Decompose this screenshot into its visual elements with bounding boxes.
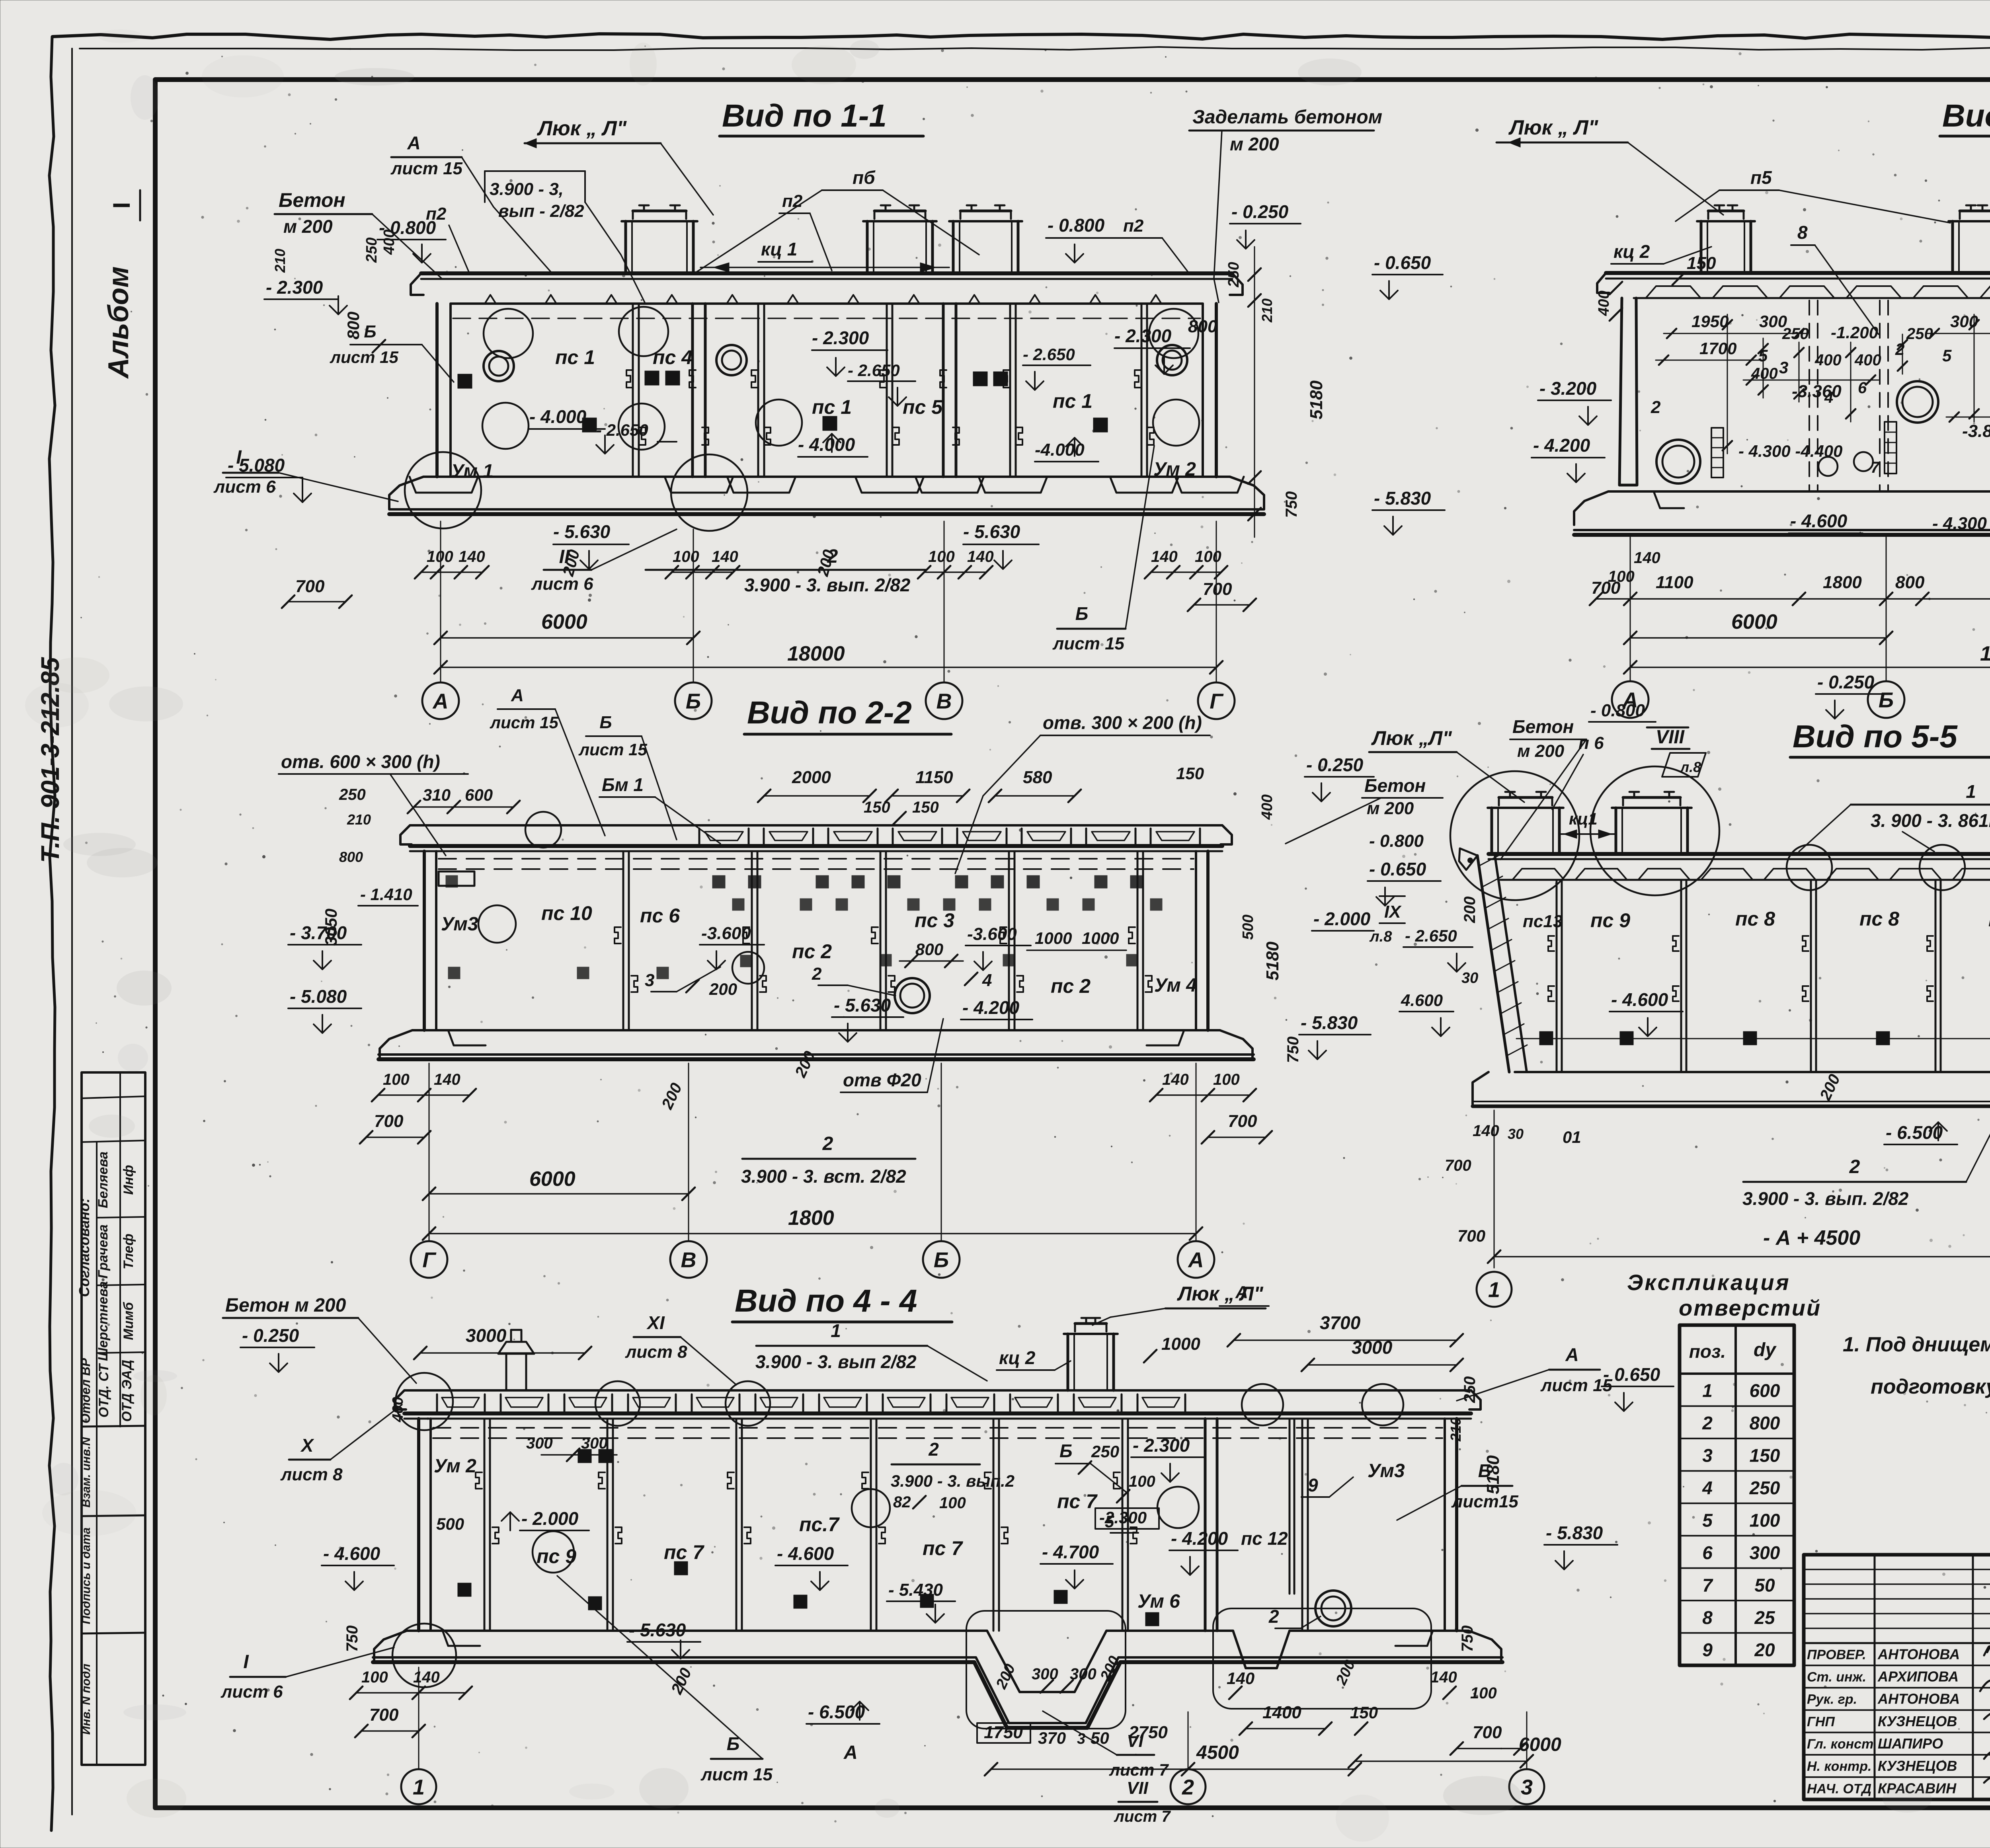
view 3-3 left wall — [1619, 298, 1637, 485]
svg-text:- 2.650: - 2.650 — [596, 421, 648, 439]
svg-text:ПРОВЕР.: ПРОВЕР. — [1807, 1647, 1866, 1662]
view 5-5 floor profile top — [1515, 1072, 1990, 1122]
svg-text:- 5.830: - 5.830 — [1301, 1012, 1358, 1033]
svg-text:отверстий: отверстий — [1679, 1295, 1821, 1320]
title block name row line 5 — [1804, 1754, 1990, 1756]
svg-text:м 200: м 200 — [283, 216, 333, 237]
svg-text:Бетон: Бетон — [279, 189, 345, 211]
view 4-4 grid bubble 1 — [401, 1769, 436, 1804]
svg-text:Б: Б — [1075, 603, 1089, 624]
svg-text:1100: 1100 — [1656, 573, 1693, 592]
svg-text:лист 15: лист 15 — [330, 348, 399, 366]
view 4-4 floor right foot — [1469, 1631, 1501, 1661]
svg-text:I: I — [243, 1651, 249, 1673]
title block vertical 2 — [1972, 1555, 1974, 1799]
svg-text:лист 15: лист 15 — [700, 1765, 773, 1784]
svg-text:100: 100 — [427, 548, 453, 565]
svg-text:- 0.650: - 0.650 — [1603, 1364, 1660, 1385]
svg-text:-4.000: -4.000 — [1035, 440, 1085, 460]
svg-text:2: 2 — [928, 1439, 939, 1460]
svg-text:Б: Б — [686, 689, 701, 713]
svg-text:лист 6: лист 6 — [220, 1682, 283, 1702]
view 4-4 callout circle roof 4 — [1362, 1384, 1403, 1425]
svg-text:150: 150 — [1350, 1703, 1378, 1722]
svg-text:п5: п5 — [1750, 167, 1772, 188]
svg-text:I: I — [236, 447, 242, 468]
svg-text:1750: 1750 — [984, 1723, 1023, 1742]
view 2-2 floor bottom slab — [378, 1053, 1254, 1056]
view 5-5 floor profile bottom — [1473, 1106, 1990, 1141]
svg-text:- 0.250: - 0.250 — [1306, 754, 1364, 775]
view 1-1 pipe opening 2 — [716, 345, 747, 375]
svg-text:А: А — [1235, 1283, 1248, 1302]
svg-text:6000: 6000 — [529, 1168, 576, 1191]
svg-text:пс 2: пс 2 — [792, 940, 832, 963]
svg-text:250: 250 — [339, 786, 366, 803]
view 2-2 roof band — [410, 824, 1222, 827]
view 2-2 roof right cap — [1221, 825, 1232, 844]
svg-text:3: 3 — [1702, 1445, 1713, 1466]
view 3-3 floor bottom slab — [1574, 529, 1990, 531]
svg-text:6000: 6000 — [541, 610, 587, 634]
view 1-1 callout circle wall mid 4 — [1153, 400, 1199, 446]
svg-text:3700: 3700 — [1320, 1312, 1361, 1333]
svg-text:Н. контр.: Н. контр. — [1807, 1759, 1871, 1774]
view 4-4 roof slab boxes — [437, 1394, 485, 1413]
svg-text:- 0.250: - 0.250 — [1817, 672, 1875, 692]
view 1-1 callout circle base II — [671, 454, 747, 531]
svg-text:5180: 5180 — [1307, 380, 1326, 419]
view 2-2 callout circle um3 — [478, 905, 516, 943]
svg-text:Рук. гр.: Рук. гр. — [1807, 1692, 1857, 1707]
view 3-3 roof hatch box 1 — [1700, 221, 1703, 273]
view 1-1 arrow luk — [525, 138, 537, 148]
svg-text:- 4.600: - 4.600 — [777, 1543, 834, 1564]
svg-text:580: 580 — [1023, 768, 1052, 787]
view 1-1 roof right end cap — [1230, 273, 1243, 295]
svg-text:100: 100 — [928, 548, 955, 565]
svg-text:- 3.700: - 3.700 — [290, 922, 347, 943]
svg-text:3.900 - 3. вст. 2/82: 3.900 - 3. вст. 2/82 — [741, 1166, 906, 1187]
svg-text:лист 6: лист 6 — [213, 477, 276, 497]
view 1-1 floor top line — [423, 476, 1230, 478]
svg-text:- 1.410: - 1.410 — [360, 885, 412, 904]
view 3-3 partitions dashed — [1809, 300, 1810, 490]
view 4-4 ceiling dashed — [433, 1427, 1442, 1429]
svg-text:- 5.080: - 5.080 — [290, 986, 347, 1007]
svg-text:150: 150 — [1687, 253, 1716, 273]
svg-text:100: 100 — [361, 1669, 388, 1686]
svg-text:- 0.250: - 0.250 — [1231, 201, 1289, 222]
svg-text:Вид по 1-1: Вид по 1-1 — [722, 98, 887, 133]
svg-text:9: 9 — [1702, 1639, 1713, 1660]
svg-text:- 2.000: - 2.000 — [521, 1508, 579, 1529]
view 3-3 title underline — [1940, 135, 1990, 138]
svg-text:Люк „ Л": Люк „ Л" — [537, 117, 627, 140]
svg-text:пс 9: пс 9 — [537, 1545, 576, 1567]
view 3-3 dim 6000 — [1630, 637, 1886, 639]
view 4-4 right wall — [1455, 1419, 1458, 1631]
svg-text:700: 700 — [1203, 579, 1232, 599]
view 3-3 axis line A — [1630, 537, 1631, 681]
view 3-3 axis line B — [1886, 537, 1887, 681]
svg-text:Согласовано:: Согласовано: — [76, 1198, 92, 1297]
svg-text:140: 140 — [1430, 1669, 1457, 1686]
svg-text:п2: п2 — [782, 191, 803, 211]
view 2-2 title underline — [744, 733, 951, 736]
view 1-1 roof hatch box 2 — [866, 221, 869, 273]
view 4-4 floor top with pit — [407, 1631, 1469, 1692]
view 4-4 roof band — [404, 1389, 1471, 1392]
view 4-4 partition 5 — [993, 1419, 995, 1631]
view 4-4 callout circle wall 2 — [852, 1489, 890, 1527]
svg-text:отв. 300 × 200 (h): отв. 300 × 200 (h) — [1043, 712, 1202, 733]
svg-text:8: 8 — [1702, 1607, 1713, 1628]
svg-text:3.900 - 3. вып 2/82: 3.900 - 3. вып 2/82 — [755, 1351, 917, 1372]
svg-text:6000: 6000 — [1519, 1734, 1561, 1755]
svg-text:л.8: л.8 — [1680, 759, 1701, 775]
table row line 7 — [1680, 1600, 1794, 1601]
view 2-2 left wall — [423, 851, 426, 1030]
svg-text:3.900 - 3,: 3.900 - 3, — [490, 179, 564, 199]
svg-text:II: II — [559, 546, 570, 567]
svg-text:100: 100 — [1750, 1510, 1780, 1530]
svg-text:кц 1: кц 1 — [761, 239, 797, 259]
svg-text:- 2.300: - 2.300 — [1114, 326, 1172, 346]
view 1-1 callout circle base I — [405, 452, 481, 528]
svg-text:- 5.430: - 5.430 — [888, 1580, 943, 1600]
table row line 5 — [1680, 1535, 1794, 1536]
title block signature scribbles — [1984, 1639, 1990, 1667]
svg-text:3.900 - 3. вып.2: 3.900 - 3. вып.2 — [891, 1472, 1015, 1490]
svg-text:100: 100 — [1213, 1071, 1240, 1088]
svg-text:210: 210 — [272, 249, 288, 273]
svg-text:- 2.650: - 2.650 — [1023, 345, 1075, 364]
svg-text:пс 1: пс 1 — [555, 346, 595, 368]
svg-text:4.600: 4.600 — [1401, 991, 1443, 1010]
view 1-1 dim 6000 — [441, 637, 693, 639]
svg-text:100: 100 — [673, 548, 699, 565]
svg-text:кц 2: кц 2 — [1613, 241, 1650, 262]
svg-text:200: 200 — [1461, 897, 1479, 924]
svg-text:А: А — [432, 689, 449, 713]
svg-text:3.900 - 3. вып. 2/82: 3.900 - 3. вып. 2/82 — [1742, 1188, 1909, 1209]
svg-text:20: 20 — [1754, 1639, 1775, 1660]
svg-text:VIII: VIII — [1656, 727, 1685, 748]
svg-text:4: 4 — [982, 971, 992, 990]
svg-text:1: 1 — [1488, 1278, 1500, 1302]
view 2-2 roof slab boxes — [699, 828, 749, 846]
svg-text:- 0.250: - 0.250 — [242, 1325, 299, 1346]
view 5-5 mid level line — [1516, 1038, 1990, 1039]
svg-text:300: 300 — [1750, 1542, 1780, 1563]
view 5-5 floor bottom line 2 — [1473, 1101, 1990, 1102]
svg-text:2: 2 — [1651, 398, 1661, 417]
svg-text:ОТД ЭАД: ОТД ЭАД — [119, 1360, 135, 1422]
svg-text:КУЗНЕЦОВ: КУЗНЕЦОВ — [1878, 1713, 1957, 1729]
view 4-4 partition 6 — [1122, 1419, 1124, 1631]
svg-text:750: 750 — [1283, 491, 1300, 518]
svg-text:700: 700 — [374, 1111, 404, 1131]
svg-text:3000: 3000 — [466, 1325, 507, 1346]
svg-text:Г: Г — [1210, 689, 1224, 713]
title block thin row 2 — [1804, 1583, 1990, 1585]
svg-text:3.900 - 3. вып. 2/82: 3.900 - 3. вып. 2/82 — [744, 575, 911, 595]
view 4-4 partition 2 — [607, 1419, 609, 1631]
svg-text:250: 250 — [1091, 1442, 1119, 1461]
svg-text:- А + 4500: - А + 4500 — [1763, 1226, 1860, 1250]
view 4-4 partition 4 — [870, 1419, 872, 1631]
svg-text:Инф: Инф — [121, 1165, 136, 1195]
svg-text:310: 310 — [423, 786, 451, 804]
view 5-5 roof band — [1489, 852, 1990, 856]
svg-text:м 200: м 200 — [1517, 741, 1565, 761]
svg-text:500: 500 — [1240, 914, 1256, 940]
margin stamp row line b — [97, 1285, 145, 1285]
svg-text:АРХИПОВА: АРХИПОВА — [1877, 1669, 1959, 1685]
svg-text:лист 6: лист 6 — [531, 574, 593, 594]
svg-text:А: А — [407, 133, 420, 153]
svg-text:- 2.300: - 2.300 — [266, 277, 323, 298]
svg-text:А: А — [1188, 1248, 1204, 1272]
view 2-2 partition 3 — [880, 851, 882, 1030]
svg-text:9: 9 — [1308, 1475, 1318, 1495]
title block vertical 1 — [1874, 1555, 1876, 1799]
svg-text:- 4.700: - 4.700 — [1042, 1542, 1099, 1562]
svg-text:140: 140 — [1227, 1669, 1254, 1688]
svg-text:XI: XI — [646, 1312, 665, 1333]
svg-text:140: 140 — [1473, 1122, 1499, 1140]
view 1-1 callout circle wall mid 1 — [482, 403, 529, 449]
svg-text:150: 150 — [912, 799, 939, 816]
view 4-4 embedded plates — [458, 1583, 471, 1597]
svg-text:Грачева: Грачева — [96, 1224, 111, 1279]
margin stamp table frame — [82, 1072, 145, 1765]
svg-text:400: 400 — [1854, 351, 1881, 369]
view 1-1 dim 140 100 d — [1151, 571, 1221, 573]
svg-text:600: 600 — [1750, 1380, 1780, 1401]
svg-text:2: 2 — [1268, 1606, 1279, 1627]
view 5-5 partition 4 — [1935, 880, 1937, 1072]
view 3-3 grid bubble A — [1612, 681, 1649, 718]
svg-text:250: 250 — [1749, 1478, 1780, 1498]
svg-text:370: 370 — [1038, 1729, 1066, 1747]
svg-text:1000: 1000 — [1082, 929, 1119, 947]
svg-text:-3.600: -3.600 — [967, 924, 1017, 944]
table row line 8 — [1680, 1632, 1794, 1634]
svg-text:НАЧ. ОТД: НАЧ. ОТД — [1807, 1781, 1871, 1796]
svg-text:отв. 600 × 300 (h): отв. 600 × 300 (h) — [281, 751, 440, 772]
svg-text:А: А — [843, 1742, 858, 1763]
view 1-1 callout circle wall mid 3 — [756, 400, 802, 446]
view 2-2 dim 6000 — [429, 1193, 689, 1195]
margin stamp col line 2 — [119, 1072, 121, 1427]
margin stamp row soglasovano top — [82, 1140, 145, 1142]
view 2-2 floor left foot — [380, 1030, 412, 1060]
view 1-1 roof seat notches — [485, 295, 496, 304]
view 1-1 dim 18000 — [441, 667, 1216, 668]
svg-text:5180: 5180 — [1263, 942, 1282, 981]
svg-text:VI: VI — [1127, 1731, 1143, 1751]
view 1-1 pipe opening 1 — [484, 351, 514, 381]
view 5-5 title underline — [1790, 756, 1990, 759]
title block name row line 6 — [1804, 1776, 1990, 1778]
view 2-2 grid bubble V — [670, 1241, 707, 1278]
svg-text:Вид по 5-5: Вид по 5-5 — [1793, 719, 1958, 754]
svg-text:пс 10: пс 10 — [541, 902, 592, 924]
svg-text:300: 300 — [1032, 1665, 1058, 1683]
margin stamp top cell line — [82, 1096, 145, 1098]
view 3-3 ladder marks — [1711, 428, 1723, 478]
svg-text:лист 15: лист 15 — [1052, 634, 1125, 653]
svg-text:- 4.600: - 4.600 — [1790, 511, 1848, 531]
svg-text:140: 140 — [1634, 549, 1660, 567]
svg-text:Вид по 4 - 4: Вид по 4 - 4 — [735, 1283, 917, 1318]
svg-text:700: 700 — [369, 1705, 399, 1725]
view 1-1 embedded plates — [582, 418, 597, 432]
view 1-1 callout circle wall top 1 — [484, 309, 533, 358]
svg-text:2: 2 — [827, 546, 838, 567]
svg-text:3. 900 - 3. 861п· 2/82: 3. 900 - 3. 861п· 2/82 — [1871, 810, 1990, 831]
svg-text:Вид по 3-3: Вид по 3-3 — [1942, 98, 1990, 133]
svg-text:- 2.300: - 2.300 — [812, 327, 869, 348]
view 3-3 internal dim horizontals — [1664, 333, 1807, 334]
svg-text:п2: п2 — [1123, 216, 1144, 236]
svg-text:пс 1: пс 1 — [812, 396, 852, 418]
svg-text:В: В — [936, 689, 952, 713]
svg-text:1. Под днищем сооружения: 1. Под днищем сооружения устроить — [1843, 1333, 1990, 1356]
svg-text:6: 6 — [1858, 379, 1867, 397]
view 2-2 callout circle roof left — [525, 812, 561, 848]
view 4-4 partition 3 — [736, 1419, 737, 1631]
svg-text:-3.600: -3.600 — [701, 924, 751, 943]
table frame — [1680, 1325, 1794, 1665]
view 3-3 roof hatch box 2 — [1951, 221, 1954, 273]
view 3-3 roof slab top chord — [1606, 271, 1990, 275]
svg-text:700: 700 — [295, 577, 325, 596]
svg-text:700: 700 — [1457, 1226, 1485, 1245]
svg-text:2: 2 — [812, 964, 822, 984]
svg-text:6: 6 — [1702, 1542, 1713, 1563]
title block thin row 5 — [1804, 1628, 1990, 1629]
svg-text:Б: Б — [934, 1248, 949, 1272]
view 1-1 grid bubble G — [1198, 682, 1235, 719]
svg-text:- 5.630: - 5.630 — [963, 521, 1020, 542]
view 4-4 partition 1 — [484, 1419, 486, 1631]
svg-text:- 0.650: - 0.650 — [1369, 859, 1426, 879]
table row line 3 — [1680, 1470, 1794, 1472]
view 3-3 roof beam seats — [1634, 297, 1990, 299]
svg-text:- 4.300: - 4.300 — [1932, 514, 1987, 533]
svg-text:- 4.600: - 4.600 — [1611, 989, 1668, 1010]
svg-text:Тлеф: Тлеф — [121, 1234, 136, 1269]
view 4-4 hatch kc2 box — [1067, 1334, 1069, 1390]
svg-text:Инв. N подл: Инв. N подл — [80, 1663, 93, 1735]
svg-text:пс 6: пс 6 — [640, 905, 680, 927]
svg-text:Бетон м 200: Бетон м 200 — [225, 1295, 346, 1316]
svg-text:- 0.800: - 0.800 — [1048, 215, 1105, 236]
view 1-1 wall axis B — [691, 304, 694, 477]
svg-text:- 4.600: - 4.600 — [323, 1543, 380, 1564]
svg-text:В: В — [681, 1248, 696, 1272]
svg-text:140: 140 — [967, 548, 994, 565]
svg-text:- 3.200: - 3.200 — [1539, 378, 1597, 399]
svg-text:700: 700 — [1591, 578, 1621, 598]
svg-text:I: I — [108, 202, 135, 209]
view 2-2 partition 1 — [622, 851, 624, 1030]
svg-text:3: 3 — [1521, 1775, 1533, 1799]
svg-text:Бетон: Бетон — [1364, 775, 1426, 796]
view 2-2 floor right foot — [1220, 1030, 1253, 1060]
view 2-2 grid bubble A — [1178, 1241, 1214, 1278]
svg-text:1800: 1800 — [788, 1207, 834, 1230]
svg-text:Беляева: Беляева — [96, 1152, 111, 1208]
svg-text:пс 4: пс 4 — [653, 346, 693, 368]
svg-text:140: 140 — [458, 548, 485, 565]
svg-text:пс 8: пс 8 — [1859, 908, 1899, 930]
margin stamp row podpis split — [82, 1633, 145, 1634]
torn sheet outer edge left — [49, 37, 55, 1830]
svg-text:- 5.830: - 5.830 — [1374, 488, 1431, 509]
view 1-1 title underline — [720, 135, 923, 138]
svg-text:пс13: пс13 — [1523, 912, 1563, 931]
svg-text:Люк „ Л": Люк „ Л" — [1177, 1283, 1264, 1305]
view 4-4 pit rounded callout 2 — [1213, 1608, 1431, 1709]
view 1-1 grid bubble B — [675, 682, 712, 719]
svg-text:- 4.000: - 4.000 — [798, 434, 855, 455]
title block name row line 1 — [1804, 1665, 1990, 1666]
view 1-1 dim 100 140 a — [421, 571, 482, 573]
view 5-5 partition 1 — [1556, 880, 1558, 1072]
svg-text:140: 140 — [434, 1071, 460, 1088]
view 4-4 callout circle roof 3 — [1242, 1384, 1283, 1425]
view 1-1 axis line A — [440, 521, 441, 682]
view 4-4 callout circle wall 3 — [1157, 1487, 1199, 1528]
view 1-1 wall axis V — [942, 304, 945, 477]
svg-text:- 4.200: - 4.200 — [962, 997, 1020, 1018]
svg-text:300: 300 — [581, 1435, 608, 1452]
svg-text:100: 100 — [383, 1071, 410, 1088]
svg-text:150: 150 — [864, 799, 890, 816]
svg-text:dу: dу — [1754, 1339, 1777, 1361]
view 1-1 grid bubble V — [926, 682, 962, 719]
view 4-4 callout circle roof 2 — [726, 1381, 770, 1426]
view 1-1 callout circle wall top 3 — [1149, 309, 1198, 358]
svg-text:Ум 4: Ум 4 — [1154, 975, 1197, 996]
svg-text:пб: пб — [853, 167, 876, 188]
svg-text:пс.7: пс.7 — [799, 1513, 840, 1536]
view 4-4 callout circle roof 1 — [595, 1381, 640, 1426]
view 3-3 grid bubble B — [1868, 681, 1904, 718]
svg-text:18000: 18000 — [1980, 642, 1990, 665]
view 4-4 axis lines — [418, 1667, 419, 1768]
title block row sep heavy — [1804, 1642, 1990, 1644]
view 4-4 floor bottom slab — [373, 1657, 1502, 1723]
svg-text:пс 1: пс 1 — [1053, 390, 1093, 412]
svg-text:- 5.630: - 5.630 — [629, 1620, 686, 1640]
view 4-4 floor left foot — [374, 1631, 407, 1661]
svg-text:1: 1 — [1702, 1380, 1713, 1401]
svg-text:Вид по 2-2: Вид по 2-2 — [747, 695, 912, 730]
view 1-1 dim 100 140 b — [672, 571, 733, 573]
view 5-5 roof circle 2 — [1920, 845, 1965, 890]
svg-text:01: 01 — [1563, 1128, 1581, 1146]
svg-text:ШАПИРО: ШАПИРО — [1878, 1735, 1943, 1752]
svg-text:Г: Г — [422, 1248, 437, 1272]
view 5-5 grid bubble 1 — [1477, 1272, 1512, 1307]
svg-text:Б: Б — [364, 322, 376, 341]
svg-text:Отдел ВР: Отдел ВР — [78, 1358, 93, 1423]
